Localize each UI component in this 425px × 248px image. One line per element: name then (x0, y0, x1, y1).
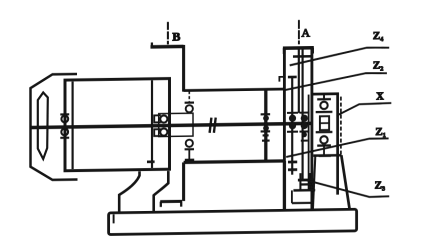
gearbox block right wall (283, 161, 286, 210)
A housing inner cap bar (293, 55, 311, 58)
gearbox block top (184, 161, 285, 162)
motor body (65, 79, 170, 171)
svg-text:A: A (301, 25, 310, 39)
vertical shaft (264, 90, 267, 161)
leader X (337, 103, 391, 116)
trapezoid support (313, 154, 341, 157)
gear Z3 (298, 178, 314, 181)
A-column right wall (310, 48, 313, 210)
motor stator line left (72, 82, 74, 170)
gear cluster right (300, 112, 310, 114)
worm top bearing (323, 94, 325, 99)
shelf (293, 189, 315, 192)
pedestal bearing top (185, 101, 194, 103)
leader Z2 (285, 73, 387, 90)
leader Z1 (286, 138, 388, 157)
base plate (109, 209, 357, 234)
rib bar (160, 200, 182, 203)
motor left bearing (60, 113, 69, 115)
wall notch (279, 77, 284, 82)
left leg inner (154, 171, 169, 212)
housing bottom (184, 89, 285, 90)
shaft A vertical (298, 50, 300, 114)
bearing box (159, 113, 193, 136)
right column step (312, 92, 339, 95)
housing left wall (182, 45, 185, 92)
A-column left wall (283, 47, 286, 162)
worm X (320, 116, 329, 130)
right column inner wall (308, 95, 310, 190)
clutch gears (288, 161, 297, 164)
motor right seals (154, 115, 161, 122)
small tick (147, 160, 155, 163)
motor fan cowl (31, 74, 78, 180)
main shaft (31, 123, 312, 127)
motor stator line right (151, 80, 153, 168)
right column outer wall (336, 94, 339, 195)
svg-text:Z4: Z4 (373, 30, 383, 43)
motor right bearing (160, 115, 167, 122)
svg-text:Z1: Z1 (375, 126, 385, 139)
left leg outer (119, 171, 139, 211)
lower housing walls (299, 173, 301, 190)
motor fan blade (38, 92, 48, 159)
pedestal bearing stem (188, 91, 190, 102)
gear cluster left (287, 112, 298, 114)
leader Z4 (290, 47, 390, 65)
inner shaft 1 (291, 77, 293, 174)
gearbox block left wall (182, 162, 185, 201)
section arrow A line (298, 20, 300, 44)
coupling ticks (210, 118, 212, 133)
pedestal bearing bottom (186, 140, 193, 147)
B bracket (151, 45, 184, 49)
svg-text:B: B (172, 30, 180, 44)
section arrow A cap (283, 46, 314, 50)
svg-text:Z3: Z3 (375, 179, 385, 192)
svg-text:Z2: Z2 (373, 59, 383, 72)
right column hidden edge (340, 97, 342, 156)
section arrow B (167, 22, 169, 45)
gear Z4 (288, 76, 297, 79)
inner shaft 2 (302, 49, 304, 180)
bevel gear pair (261, 114, 271, 140)
worm bottom bearing (316, 131, 333, 134)
svg-text:X: X (376, 92, 384, 103)
leader Z3 (304, 178, 389, 198)
